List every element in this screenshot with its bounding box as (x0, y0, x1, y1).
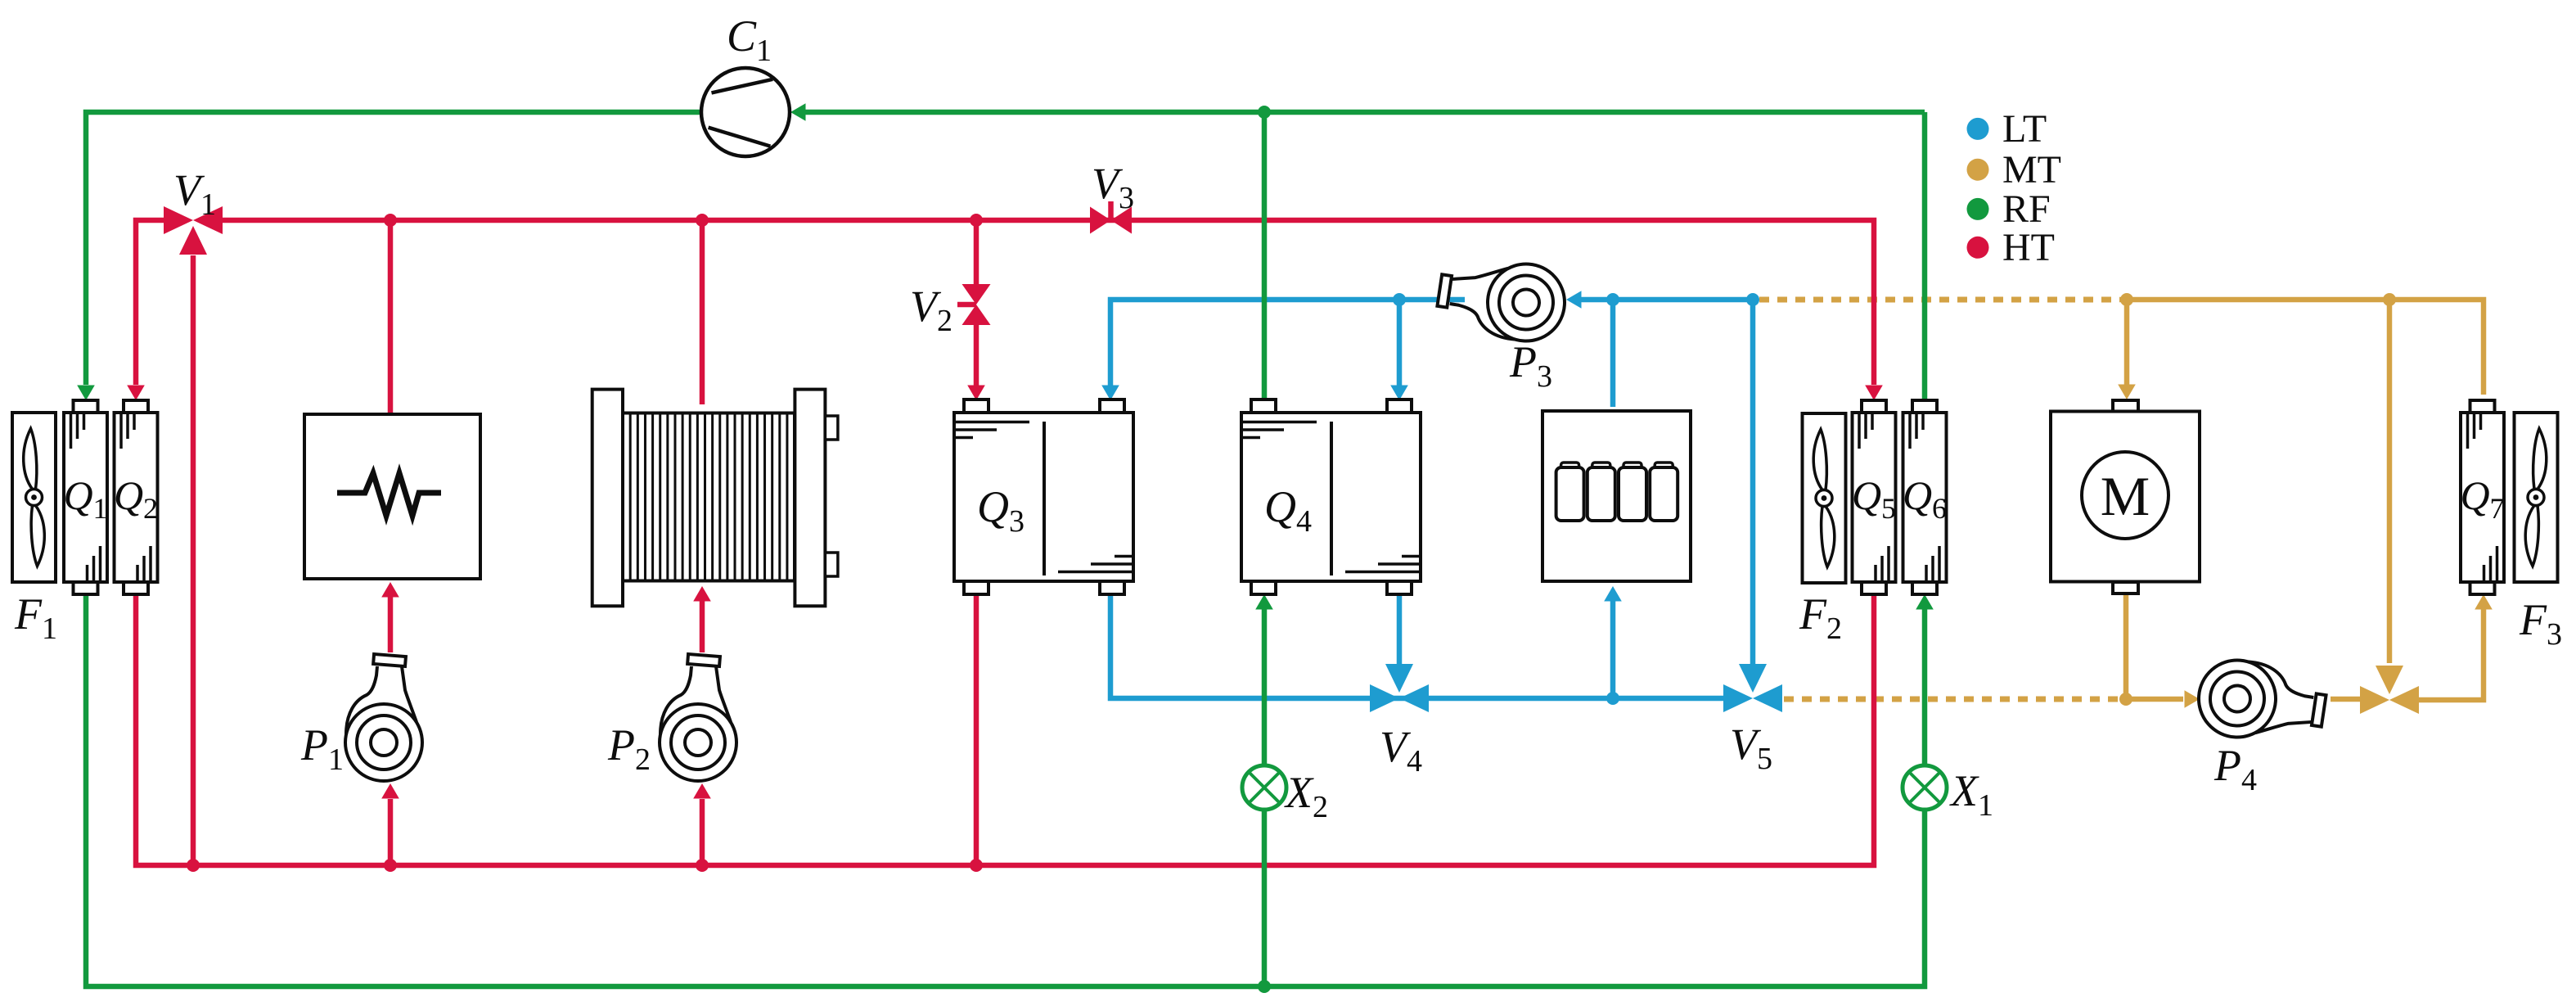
wire RF X2 lower (1262, 810, 1268, 986)
valve V4 (three-way) (1370, 664, 1429, 712)
node RF Q4 top junction (1258, 106, 1271, 119)
fan F3 (2515, 413, 2558, 582)
node HT P1 bottom (384, 859, 397, 872)
legend dot RF (1967, 198, 1989, 220)
wire RF Q4 top to manifold (1262, 112, 1268, 399)
wire HT heater top branch (388, 220, 394, 414)
wire LT supply (P3 to Q3) (1110, 300, 1465, 386)
wire HT bottom to P2 (700, 799, 705, 865)
valve V5 (three-way) (1723, 664, 1782, 712)
arrow HT into Q3 top-left (967, 386, 985, 401)
heat exchanger Q7 (2460, 400, 2504, 594)
arrow HT into P2 (693, 783, 711, 799)
wire RF X2 to Q4 (1262, 609, 1268, 765)
wire LT down to V5 (1750, 300, 1756, 665)
node MT P4 junction (2119, 693, 2132, 706)
arrow HT into Q5 top (1865, 386, 1883, 401)
wire HT V2 to Q3 (974, 324, 980, 386)
wire HT coil top branch (700, 220, 705, 404)
node LT Q4 branch (1393, 293, 1406, 306)
wire MT motor bottom to P4 line (2123, 594, 2129, 699)
wire MT dotted bottom (V5 to P4 node) (1784, 697, 2119, 702)
wire HT Q3 bottom-left to bottom manifold (974, 594, 980, 865)
wire LT suction (battery node to P3) (1581, 297, 1613, 303)
wire MT dotted top (V5 node to motor node) (1759, 297, 2119, 303)
node HT P2 bottom (696, 859, 709, 872)
arrow LT into battery bottom (1604, 586, 1622, 602)
legend dot HT (1967, 237, 1989, 259)
heat exchanger Q6 (1903, 400, 1947, 594)
node HT heater top (384, 214, 397, 227)
node LT V5 branch (1746, 293, 1759, 306)
node MT valve branch (2383, 293, 2396, 306)
arrow HT into coil bottom (693, 586, 711, 602)
wire HT bottom manifold (Q2 to Q5) (136, 594, 1874, 865)
wire LT up into battery (1610, 601, 1616, 698)
heat exchanger Q3 (chiller) (954, 399, 1133, 594)
arrow MT into motor top (2118, 385, 2136, 400)
pump P3 (1435, 258, 1567, 344)
wire RF Q1 bottom to bottom manifold (86, 594, 1925, 986)
heat exchanger Q2 (114, 400, 158, 594)
expansion valve X1 (1903, 765, 1947, 810)
pump P1 (345, 654, 422, 781)
valve V1 (three-way) (164, 206, 223, 255)
svg-text:HT: HT (2002, 226, 2055, 269)
arrow LT into Q4 top-right (1390, 386, 1408, 401)
node LT battery top (1606, 293, 1619, 306)
compressor C1 (701, 68, 790, 156)
wire LT battery top branch (1610, 300, 1616, 407)
wire LT Q4 bottom to V4 (1397, 594, 1403, 665)
wire LT return manifold (Q3 to V5) (1110, 594, 1723, 698)
wire HT V2 branch upper (974, 220, 980, 285)
valve V3 (1090, 201, 1132, 234)
fan F1 (12, 413, 56, 582)
arrow RF into Q4 bottom-left (1255, 594, 1273, 610)
node HT coil top (696, 214, 709, 227)
wire MT valve to Q7 bottom (2419, 609, 2484, 700)
wire LT branch to Q4 (1397, 300, 1403, 386)
svg-text:MT: MT (2002, 148, 2061, 192)
legend dot MT (1967, 159, 1989, 181)
arrow RF into C1 (790, 103, 806, 121)
pump P4 (2196, 657, 2328, 743)
wire RF right spine to Q6 top (1922, 112, 1928, 400)
svg-text:M: M (2101, 465, 2150, 527)
motor M (2051, 400, 2200, 594)
valve V2 (957, 284, 991, 325)
node LT battery bottom junction (1606, 692, 1619, 705)
heat exchanger Q5 (1852, 400, 1896, 594)
wire HT P2 to coil (700, 601, 705, 652)
wire RF top return (to C1) (805, 110, 1925, 115)
arrow RF into Q6 bottom (1916, 594, 1934, 610)
pump P2 (660, 654, 736, 781)
wire RF X1 to Q6 (1922, 609, 1928, 765)
heater core coil (592, 390, 838, 607)
heater (PTC resistor) (304, 414, 480, 579)
arrow HT into Q2 top (127, 386, 145, 401)
heat exchanger Q1 (63, 400, 107, 594)
wire HT P1 to heater (388, 597, 394, 652)
arrow HT into heater bottom (381, 582, 399, 598)
expansion valve X2 (1242, 765, 1286, 810)
wire MT top (motor node to Q7 top) (2119, 300, 2484, 395)
arrow RF into Q1 top (77, 386, 95, 401)
wire MT down to motor (2124, 300, 2130, 385)
fan F2 (1803, 413, 1846, 583)
wire HT V1 to Q2 (136, 220, 165, 385)
wire MT P4 to valve (2331, 697, 2360, 702)
svg-text:LT: LT (2002, 107, 2047, 151)
battery pack (1542, 411, 1691, 581)
node MT motor branch (2120, 293, 2133, 306)
wire HT V1 bottom port to bottom manifold (191, 255, 196, 865)
wire MT node to P4 (2126, 697, 2183, 702)
valve MT three-way (2360, 666, 2419, 714)
wire RF C1 to Q1 (86, 112, 701, 385)
node HT Q3 bottom junction (970, 859, 983, 872)
legend dot LT (1967, 118, 1989, 140)
arrow MT into Q7 bottom (2475, 594, 2493, 610)
wire HT bottom to P1 (388, 799, 394, 865)
wire MT down to valve (2387, 300, 2393, 663)
node RF X2 junction (1258, 980, 1271, 993)
arrow MT into P4 (2185, 690, 2200, 708)
node HT V2 branch (970, 214, 983, 227)
arrow LT into Q3 top-right (1101, 386, 1119, 401)
svg-text:RF: RF (2002, 187, 2051, 231)
heat exchanger Q4 (chiller) (1241, 399, 1421, 594)
arrow HT into P1 (381, 783, 399, 799)
arrow LT into P3 (1566, 291, 1582, 309)
node HT V1 bottom (187, 859, 200, 872)
wire HT top manifold (V1 to Q5) (223, 220, 1874, 385)
wire LT suction extension to V5 node (1613, 297, 1753, 303)
